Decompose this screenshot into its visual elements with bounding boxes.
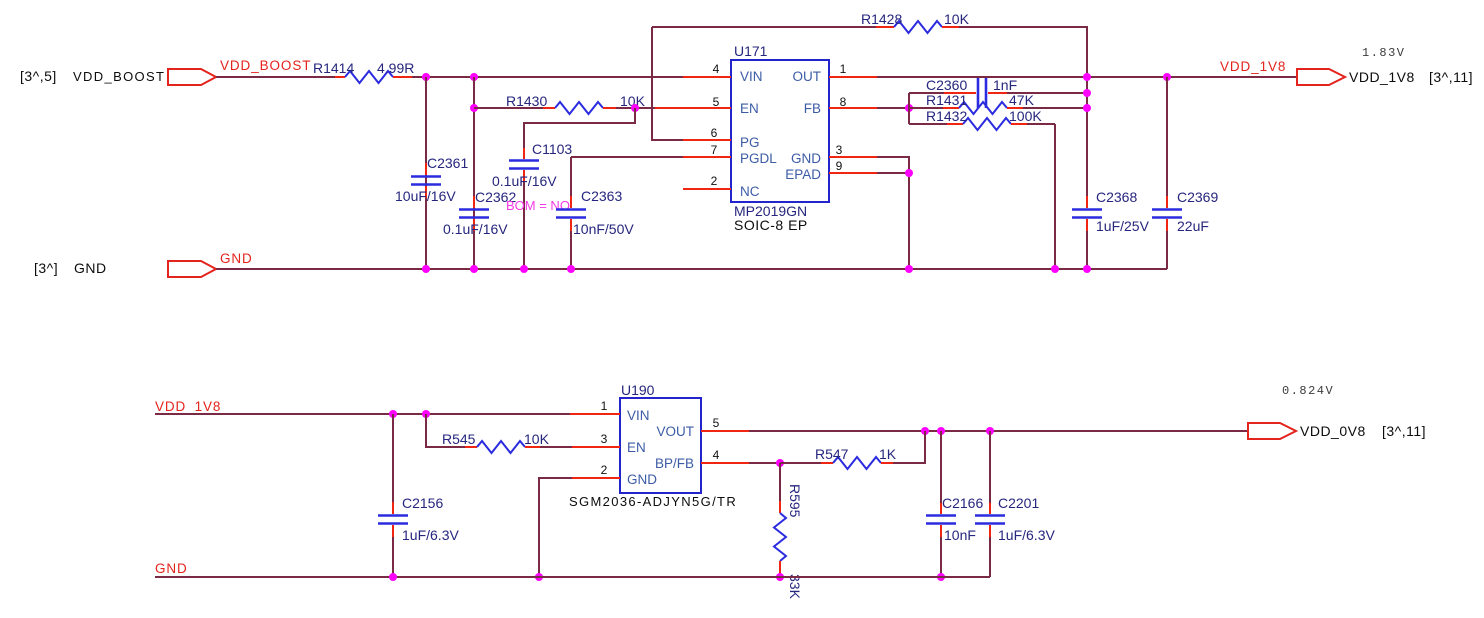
junction at 1087,77 <box>1083 73 1091 81</box>
svg-text:0.1uF/16V: 0.1uF/16V <box>443 221 508 237</box>
svg-text:SOIC-8 EP: SOIC-8 EP <box>734 217 808 233</box>
pin 4 VIN stub <box>683 62 731 77</box>
junction at 909,269 <box>905 265 913 273</box>
svg-text:10nF: 10nF <box>944 527 976 543</box>
resistor R545 10K <box>442 431 550 453</box>
resistor R547 1K <box>780 446 897 469</box>
svg-text:C2201: C2201 <box>998 495 1039 511</box>
pin 7 PGDL stub <box>683 143 731 157</box>
svg-text:VDD_1V8: VDD_1V8 <box>155 399 221 414</box>
svg-text:2: 2 <box>601 463 608 477</box>
wire VDD_1V8 rail bottom <box>155 413 570 415</box>
junction at 780,463 <box>776 459 784 467</box>
net label GND bottom <box>155 561 188 576</box>
junction GND at 524,269 <box>520 265 528 273</box>
svg-text:R1431: R1431 <box>926 92 967 108</box>
svg-text:9: 9 <box>836 159 843 173</box>
svg-text:EN: EN <box>627 440 646 455</box>
junction at 635,108 <box>631 104 639 112</box>
wire VDD_BOOST to R1414 <box>216 76 335 78</box>
wire EN to C1103 <box>524 108 635 148</box>
svg-text:100K: 100K <box>1009 108 1042 124</box>
svg-text:C2360: C2360 <box>926 77 967 93</box>
svg-text:0.1uF/16V: 0.1uF/16V <box>492 173 557 189</box>
svg-text:C2369: C2369 <box>1177 189 1218 205</box>
pin 1 VIN stub U190 <box>570 399 620 414</box>
resistor R1428 10K <box>861 11 970 33</box>
wire R1430 to EN pin <box>616 107 655 109</box>
svg-text:[3^,5]: [3^,5] <box>20 68 57 84</box>
junction at 539,577 <box>535 573 543 581</box>
svg-text:R595: R595 <box>787 484 803 518</box>
capacitor C2360 1nF <box>909 77 1087 108</box>
svg-text:5: 5 <box>713 416 720 430</box>
svg-text:1uF/25V: 1uF/25V <box>1096 218 1150 234</box>
resistor R1431 47K <box>909 92 1087 114</box>
wire R1432 to GND <box>1054 124 1056 269</box>
svg-text:U171: U171 <box>734 43 768 59</box>
junction at 990,431 <box>986 427 994 435</box>
junction at 393,414 <box>389 410 397 418</box>
capacitor C2369 22uF <box>1152 77 1218 269</box>
svg-text:VIN: VIN <box>627 408 650 423</box>
svg-text:2: 2 <box>711 174 718 188</box>
wire GND pin to ground rail <box>539 478 572 577</box>
svg-text:FB: FB <box>804 101 821 116</box>
junction at 1087,269 <box>1083 265 1091 273</box>
wire FB stub to divider <box>877 107 909 109</box>
pin 6 PG stub <box>683 126 731 140</box>
svg-text:[3^]: [3^] <box>34 260 58 276</box>
wire R547 to VOUT <box>893 431 925 463</box>
svg-text:GND: GND <box>627 472 657 487</box>
svg-text:10K: 10K <box>524 431 550 447</box>
wire GND rail top circuit <box>216 268 1167 270</box>
off-page reference text GND <box>34 260 107 276</box>
wire FB branch vertical <box>908 93 910 124</box>
junction at 474,108 <box>470 104 478 112</box>
junction at 1087,93 <box>1083 89 1091 97</box>
wire R545 to EN pin <box>540 446 572 448</box>
svg-text:[3^,11]: [3^,11] <box>1429 69 1473 85</box>
svg-text:5: 5 <box>713 95 720 109</box>
junction at 941,431 <box>937 427 945 435</box>
svg-text:[3^,11]: [3^,11] <box>1382 423 1426 439</box>
off-page reference text VDD_1V8 <box>1349 69 1473 85</box>
junction at 925,431 <box>921 427 929 435</box>
resistor R595 33K vertical <box>774 463 803 600</box>
junction at 780,577 <box>776 573 784 581</box>
junction at 1167,77 <box>1163 73 1171 81</box>
svg-text:VIN: VIN <box>740 69 763 84</box>
junction at 909,173 <box>905 169 913 177</box>
capacitor C2156 1uF/6.3V <box>378 414 459 577</box>
junction GND at 474,269 <box>470 265 478 273</box>
wire OUT to port VDD_1V8 <box>877 76 1297 78</box>
svg-text:10uF/16V: 10uF/16V <box>395 188 456 204</box>
svg-text:VDD_0V8: VDD_0V8 <box>1300 423 1366 439</box>
svg-text:1K: 1K <box>879 446 897 462</box>
svg-text:VOUT: VOUT <box>656 424 694 439</box>
junction GND at 426,269 <box>422 265 430 273</box>
svg-text:7: 7 <box>711 143 718 157</box>
junction at 474,77 <box>470 73 478 81</box>
svg-text:GND: GND <box>791 151 821 166</box>
capacitor C2201 1uF/6.3V <box>975 431 1055 577</box>
svg-text:C2361: C2361 <box>427 155 468 171</box>
capacitor C1103 0.1uF/16V <box>492 141 572 269</box>
wire R1428 to output node <box>959 27 1087 196</box>
off-page connector symbol VDD_0V8 <box>1248 423 1296 439</box>
svg-text:1uF/6.3V: 1uF/6.3V <box>998 527 1055 543</box>
off-page reference text VDD_BOOST <box>20 68 165 84</box>
svg-text:PGDL: PGDL <box>740 151 777 166</box>
svg-text:BP/FB: BP/FB <box>655 456 694 471</box>
svg-text:1: 1 <box>601 399 608 413</box>
pin 2 GND stub U190 <box>572 463 620 478</box>
svg-text:SGM2036-ADJYN5G/TR: SGM2036-ADJYN5G/TR <box>569 494 737 509</box>
capacitor C2368 1uF/25V <box>1072 189 1150 269</box>
svg-text:10K: 10K <box>944 11 970 27</box>
capacitor C2361 10uF/16V <box>395 77 468 269</box>
net label VDD_1V8 bottom <box>155 399 221 414</box>
op-amp/regulator U171 MP2019GN body <box>731 43 829 233</box>
svg-text:VDD_BOOST: VDD_BOOST <box>220 58 311 73</box>
pin 9 EPAD stub <box>829 159 877 173</box>
voltage annotation 1.83V <box>1362 46 1406 60</box>
svg-text:3: 3 <box>601 432 608 446</box>
wire GND/EPAD pins to ground <box>877 157 909 269</box>
wire PG net vertical <box>652 27 683 140</box>
net label VDD_1V8 top <box>1220 59 1286 74</box>
pin 1 OUT stub <box>829 62 877 77</box>
pin 5 EN stub <box>655 95 731 109</box>
svg-text:4: 4 <box>713 62 720 76</box>
svg-text:EN: EN <box>740 101 759 116</box>
svg-text:R545: R545 <box>442 431 476 447</box>
junction GND at 571,269 <box>567 265 575 273</box>
capacitor C2363 10nF/50V <box>556 157 634 269</box>
svg-text:R1428: R1428 <box>861 11 902 27</box>
svg-text:R547: R547 <box>815 446 849 462</box>
svg-text:NC: NC <box>740 184 760 199</box>
off-page connector symbol GND <box>168 261 216 277</box>
wire top rail PG to R1428 <box>652 26 876 28</box>
svg-text:0.824V: 0.824V <box>1282 384 1334 398</box>
svg-text:C1103: C1103 <box>532 141 572 157</box>
svg-text:3: 3 <box>836 143 843 157</box>
svg-text:1nF: 1nF <box>993 77 1017 93</box>
svg-text:R1432: R1432 <box>926 108 967 124</box>
svg-text:4: 4 <box>713 448 720 462</box>
svg-text:22uF: 22uF <box>1177 218 1209 234</box>
voltage annotation 0.824V <box>1282 384 1334 398</box>
svg-text:R1430: R1430 <box>506 93 547 109</box>
svg-text:U190: U190 <box>621 382 655 398</box>
capacitor C2362 0.1uF/16V <box>443 77 516 269</box>
svg-text:VDD_1V8: VDD_1V8 <box>1220 59 1286 74</box>
svg-text:8: 8 <box>840 95 847 109</box>
svg-text:C2363: C2363 <box>581 188 622 204</box>
resistor R1414 4.99R <box>313 60 414 83</box>
junction at 941,577 <box>937 573 945 581</box>
svg-text:PG: PG <box>740 135 760 150</box>
wire GND rail bottom <box>155 576 990 578</box>
svg-text:VDD_BOOST: VDD_BOOST <box>73 69 165 84</box>
svg-text:VDD_1V8: VDD_1V8 <box>1349 69 1415 85</box>
resistor R1430 10K <box>506 93 646 114</box>
svg-text:C2368: C2368 <box>1096 189 1137 205</box>
resistor R1432 100K <box>909 108 1055 130</box>
net label GND <box>220 251 253 266</box>
net label VDD_BOOST <box>220 58 311 73</box>
junction at 393,577 <box>389 573 397 581</box>
off-page connector symbol VDD_BOOST <box>168 69 216 85</box>
off-page reference text VDD_0V8 <box>1300 423 1426 439</box>
junction at 426,77 <box>422 73 430 81</box>
regulator U190 SGM2036 body <box>569 382 737 509</box>
svg-text:GND: GND <box>74 260 107 276</box>
pin 5 VOUT stub U190 <box>701 416 749 431</box>
svg-text:OUT: OUT <box>793 69 822 84</box>
svg-text:1.83V: 1.83V <box>1362 46 1406 60</box>
svg-text:EPAD: EPAD <box>785 167 821 182</box>
capacitor C2166 10nF <box>926 431 983 577</box>
wire VDD_1V8 to R545 <box>426 414 465 447</box>
pin 3 GND stub <box>829 143 877 157</box>
svg-text:47K: 47K <box>1009 92 1035 108</box>
pin 8 FB stub <box>829 95 877 109</box>
svg-text:1: 1 <box>840 62 847 76</box>
svg-text:1uF/6.3V: 1uF/6.3V <box>402 527 459 543</box>
wire C2363 to PGDL pin <box>571 156 683 158</box>
svg-text:6: 6 <box>711 126 718 140</box>
svg-text:C2166: C2166 <box>942 495 983 511</box>
svg-text:10nF/50V: 10nF/50V <box>573 221 634 237</box>
junction at 1087,108 <box>1083 104 1091 112</box>
junction at 1055,269 <box>1051 265 1059 273</box>
wire R1414 to VIN <box>412 76 683 78</box>
off-page connector symbol VDD_1V8 <box>1297 69 1345 85</box>
junction at 909,108 <box>905 104 913 112</box>
wire EN net left <box>474 107 543 109</box>
svg-text:GND: GND <box>220 251 253 266</box>
junction at 426,414 <box>422 410 430 418</box>
svg-text:4.99R: 4.99R <box>377 60 414 76</box>
svg-text:R1414: R1414 <box>313 60 354 76</box>
wire BP/FB to node <box>749 462 780 464</box>
svg-text:GND: GND <box>155 561 188 576</box>
pin 3 EN stub U190 <box>572 432 620 447</box>
wire VOUT rail <box>749 430 1248 432</box>
pin 2 NC stub <box>683 174 731 189</box>
pin 4 BP/FB stub U190 <box>701 448 749 463</box>
BOM = NO annotation <box>506 198 570 213</box>
svg-text:C2156: C2156 <box>402 495 443 511</box>
